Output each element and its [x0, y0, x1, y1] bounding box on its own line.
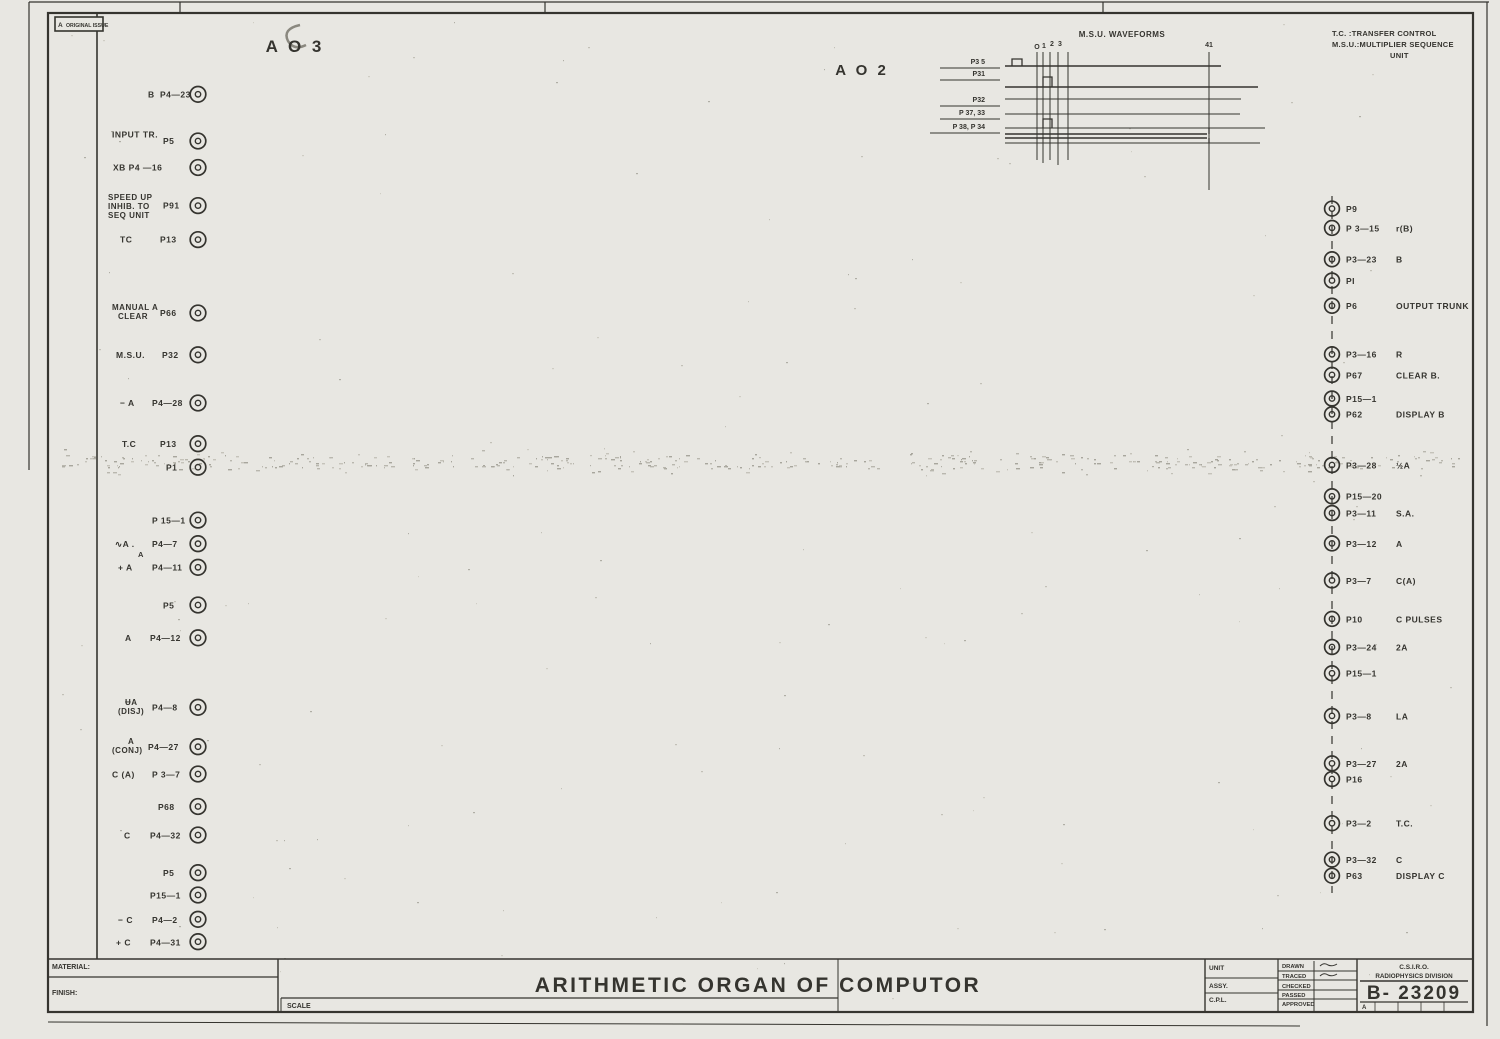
- svg-text:FINISH:: FINISH:: [52, 990, 77, 997]
- svg-text:P6: P6: [1346, 301, 1357, 311]
- svg-text:P4—31: P4—31: [150, 938, 181, 948]
- svg-text:CLEAR: CLEAR: [118, 312, 148, 321]
- svg-text:P16: P16: [1346, 774, 1363, 784]
- svg-text:ɄA: ɄA: [125, 698, 138, 707]
- svg-text:2: 2: [1050, 41, 1054, 48]
- svg-text:∿A .: ∿A .: [115, 539, 135, 549]
- svg-text:P4—7: P4—7: [152, 539, 178, 549]
- svg-text:+ C: + C: [116, 938, 131, 948]
- svg-text:P5: P5: [163, 601, 174, 611]
- svg-text:P 3—15: P 3—15: [1346, 223, 1380, 233]
- svg-text:P4—28: P4—28: [152, 398, 183, 408]
- svg-text:MATERIAL:: MATERIAL:: [52, 964, 90, 971]
- svg-text:P1: P1: [166, 463, 177, 473]
- svg-text:P31: P31: [973, 71, 986, 78]
- svg-text:PASSED: PASSED: [1282, 993, 1305, 999]
- svg-text:C: C: [1396, 855, 1403, 865]
- svg-text:½A: ½A: [1396, 460, 1410, 470]
- left column labels: [108, 89, 191, 947]
- svg-text:P3—16: P3—16: [1346, 350, 1377, 360]
- right column labels: [1346, 204, 1469, 881]
- svg-text:P32: P32: [162, 350, 179, 360]
- svg-text:SPEED UP: SPEED UP: [108, 193, 153, 202]
- svg-text:P63: P63: [1346, 871, 1363, 881]
- msu waveforms title: [1079, 30, 1166, 39]
- svg-text:3: 3: [1058, 41, 1062, 48]
- svg-text:+ A: + A: [118, 563, 133, 573]
- top margin ticks: [180, 2, 1103, 13]
- svg-text:P15—1: P15—1: [1346, 669, 1377, 679]
- svg-text:C PULSES: C PULSES: [1396, 614, 1443, 624]
- svg-text:C (A): C (A): [112, 770, 135, 780]
- svg-text:RADIOPHYSICS DIVISION: RADIOPHYSICS DIVISION: [1375, 973, 1453, 980]
- svg-text:P5: P5: [163, 868, 174, 878]
- svg-text:DISPLAY C: DISPLAY C: [1396, 871, 1445, 881]
- svg-text:(CONJ): (CONJ): [112, 746, 143, 755]
- svg-text:O: O: [1034, 44, 1040, 51]
- svg-text:P 37, 33: P 37, 33: [959, 110, 985, 117]
- svg-text:OUTPUT TRUNK: OUTPUT TRUNK: [1396, 301, 1469, 311]
- svg-text:INHIB. TO: INHIB. TO: [108, 202, 150, 211]
- svg-text:R: R: [1396, 350, 1403, 360]
- title block sign rows: [1278, 964, 1357, 1008]
- svg-text:P13: P13: [160, 235, 177, 245]
- svg-text:r(B): r(B): [1396, 223, 1413, 233]
- svg-text:T.C. :TRANSFER CONTROL: T.C. :TRANSFER CONTROL: [1332, 29, 1437, 38]
- right column dashed axis: [1331, 196, 1333, 893]
- original issue box: [55, 17, 109, 31]
- svg-text:S.A.: S.A.: [1396, 508, 1415, 518]
- svg-text:P68: P68: [158, 802, 175, 812]
- svg-text:ARITHMETIC ORGAN OF COMPUTOR: ARITHMETIC ORGAN OF COMPUTOR: [535, 974, 981, 997]
- svg-text:1: 1: [1042, 43, 1046, 50]
- svg-text:P4—2: P4—2: [152, 915, 178, 925]
- svg-text:A: A: [125, 633, 132, 643]
- svg-text:P15—1: P15—1: [1346, 394, 1377, 404]
- svg-text:P9: P9: [1346, 204, 1357, 214]
- svg-text:M.S.U.: M.S.U.: [116, 350, 145, 360]
- svg-text:P3 5: P3 5: [971, 59, 986, 66]
- svg-text:A O 3: A O 3: [266, 37, 325, 56]
- svg-text:2A: 2A: [1396, 642, 1408, 652]
- label TC transfer control: [1332, 29, 1454, 60]
- svg-text:P66: P66: [160, 308, 177, 318]
- waveform traces: [1005, 59, 1265, 143]
- svg-text:P10: P10: [1346, 614, 1363, 624]
- svg-text:PI: PI: [1346, 276, 1355, 286]
- svg-text:P91: P91: [163, 201, 180, 211]
- svg-text:CHECKED: CHECKED: [1282, 984, 1311, 990]
- svg-text:41: 41: [1205, 42, 1213, 49]
- svg-text:LA: LA: [1396, 711, 1408, 721]
- svg-text:P3—24: P3—24: [1346, 642, 1377, 652]
- svg-text:C(A): C(A): [1396, 576, 1416, 586]
- svg-text:− A: − A: [120, 398, 135, 408]
- svg-text:TRACED: TRACED: [1282, 974, 1306, 980]
- svg-text:P13: P13: [160, 439, 177, 449]
- waveform labels: [930, 59, 1000, 133]
- left column connectors: [190, 87, 206, 950]
- svg-text:− C: − C: [118, 915, 133, 925]
- svg-text:UNIT: UNIT: [1390, 51, 1409, 60]
- svg-text:P62: P62: [1346, 410, 1363, 420]
- svg-text:APPROVED: APPROVED: [1282, 1002, 1315, 1008]
- svg-text:T.C.: T.C.: [1396, 819, 1413, 829]
- svg-text:(DISJ): (DISJ): [118, 707, 144, 716]
- svg-text:SCALE: SCALE: [287, 1003, 311, 1010]
- svg-text:P3—23: P3—23: [1346, 255, 1377, 265]
- revision strip: [96, 13, 98, 959]
- svg-text:P3—2: P3—2: [1346, 819, 1372, 829]
- svg-text:P3—32: P3—32: [1346, 855, 1377, 865]
- svg-text:P4—8: P4—8: [152, 703, 178, 713]
- svg-text:TC: TC: [120, 235, 132, 245]
- title strip top line: [48, 958, 1473, 960]
- svg-text:P 15—1: P 15—1: [152, 516, 186, 526]
- svg-text:ORIGINAL ISSUE: ORIGINAL ISSUE: [66, 23, 109, 29]
- svg-text:T.C: T.C: [122, 439, 136, 449]
- svg-text:ASSY.: ASSY.: [1209, 983, 1228, 990]
- svg-text:P3—7: P3—7: [1346, 576, 1372, 586]
- svg-text:P32: P32: [973, 97, 986, 104]
- svg-text:P5: P5: [163, 136, 174, 146]
- svg-text:P 38, P 34: P 38, P 34: [953, 124, 986, 131]
- svg-text:UNIT: UNIT: [1209, 965, 1224, 972]
- svg-text:DRAWN: DRAWN: [1282, 964, 1304, 970]
- svg-text:2A: 2A: [1396, 759, 1408, 769]
- svg-text:P3—8: P3—8: [1346, 711, 1372, 721]
- title block unit rows: [1205, 965, 1278, 1004]
- svg-text:MANUAL A: MANUAL A: [112, 303, 158, 312]
- svg-text:INPUT TR.: INPUT TR.: [112, 130, 158, 140]
- svg-text:C: C: [124, 831, 131, 841]
- svg-text:M.S.U.:MULTIPLIER SEQUENCE: M.S.U.:MULTIPLIER SEQUENCE: [1332, 40, 1454, 49]
- svg-text:P3—12: P3—12: [1346, 539, 1377, 549]
- waveform time rulings: [1034, 41, 1213, 190]
- title block frame: [1205, 959, 1357, 1012]
- svg-text:A O 2: A O 2: [835, 62, 889, 79]
- svg-text:A: A: [138, 550, 144, 559]
- svg-text:DISPLAY B: DISPLAY B: [1396, 410, 1445, 420]
- drawing title: [535, 974, 981, 997]
- svg-text:P3—11: P3—11: [1346, 508, 1376, 518]
- material box: [48, 959, 278, 1012]
- svg-text:P67: P67: [1346, 370, 1363, 380]
- svg-text:P 3—7: P 3—7: [152, 770, 180, 780]
- csiro block: [1360, 964, 1468, 1012]
- svg-text:P4—11: P4—11: [152, 563, 182, 573]
- svg-text:B: B: [1396, 255, 1403, 265]
- svg-text:A: A: [1396, 539, 1403, 549]
- right column connectors: [1325, 201, 1340, 883]
- svg-text:P3—27: P3—27: [1346, 759, 1377, 769]
- smudge C mark: [287, 25, 307, 47]
- svg-text:P15—20: P15—20: [1346, 492, 1382, 502]
- svg-text:P4—27: P4—27: [148, 742, 179, 752]
- svg-text:P4—12: P4—12: [150, 633, 181, 643]
- svg-text:P4—23: P4—23: [160, 89, 191, 99]
- svg-text:SEQ UNIT: SEQ UNIT: [108, 211, 150, 220]
- svg-text:P4—32: P4—32: [150, 831, 181, 841]
- svg-text:B- 23209: B- 23209: [1367, 983, 1461, 1004]
- svg-text:M.S.U. WAVEFORMS: M.S.U. WAVEFORMS: [1079, 30, 1166, 39]
- svg-text:A: A: [1362, 1005, 1367, 1011]
- svg-text:CLEAR B.: CLEAR B.: [1396, 370, 1440, 380]
- svg-text:B: B: [148, 89, 155, 99]
- svg-text:A: A: [58, 22, 63, 29]
- svg-text:XB P4 —16: XB P4 —16: [113, 163, 162, 173]
- scale box: [281, 959, 838, 1012]
- svg-text:C.P.L.: C.P.L.: [1209, 997, 1227, 1004]
- svg-text:C.S.I.R.O.: C.S.I.R.O.: [1399, 964, 1429, 971]
- svg-text:A: A: [128, 737, 134, 746]
- label AO2 top: [835, 62, 889, 79]
- label AO3 top: [266, 37, 325, 56]
- svg-text:P3—28: P3—28: [1346, 460, 1377, 470]
- svg-text:P15—1: P15—1: [150, 891, 181, 901]
